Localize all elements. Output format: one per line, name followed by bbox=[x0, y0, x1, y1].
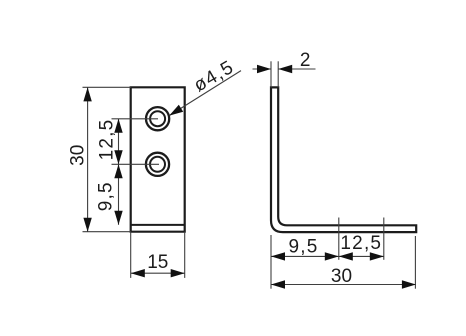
label 9,5 bbox=[95, 181, 116, 211]
label 30 bbox=[68, 145, 89, 166]
arrow 9,5 down bbox=[114, 211, 122, 225]
dim line 9,5 bbox=[118, 164, 120, 225]
arrow 30 left bbox=[271, 280, 285, 288]
bracket face outline bbox=[131, 87, 185, 231]
hole H2 outer bbox=[146, 153, 169, 176]
bend line bbox=[131, 224, 185, 226]
thin dimension / extension lines bbox=[83, 71, 242, 278]
arrow 15 left bbox=[131, 269, 145, 277]
arrow 12,5 up bbox=[114, 119, 122, 133]
label 12,5 bbox=[97, 119, 118, 161]
dim line 12,5 bbox=[118, 119, 120, 165]
arrow 30 up bbox=[83, 87, 91, 101]
svg-text:30: 30 bbox=[68, 145, 89, 166]
L profile outline bbox=[271, 87, 416, 232]
arrow 9,5 up bbox=[114, 164, 122, 178]
hole H1 outer bbox=[146, 107, 169, 130]
arrows right view bbox=[257, 65, 416, 289]
svg-text:9,5: 9,5 bbox=[95, 181, 116, 211]
svg-text:12,5: 12,5 bbox=[340, 233, 382, 254]
ext line 30 bottom bbox=[83, 231, 131, 233]
leader line dia 4,5 bbox=[169, 71, 241, 116]
ext line 30 right bbox=[414, 236, 416, 289]
svg-text:2: 2 bbox=[300, 50, 311, 71]
ext line 15 left bbox=[130, 232, 132, 278]
arrow 12,5 right bbox=[370, 252, 384, 260]
hole H1 inner bbox=[150, 111, 165, 126]
dim line 2 left segment bbox=[253, 68, 272, 70]
arrow 2 pointing left bbox=[278, 65, 292, 73]
hole H2 inner bbox=[150, 157, 165, 172]
center line hole H1 bbox=[112, 118, 159, 120]
ext line hole pos 1 bbox=[338, 218, 340, 260]
ext line 30 left bbox=[270, 235, 272, 289]
dim line 9,5 bbox=[271, 255, 339, 257]
dim line 12,5 bbox=[339, 255, 384, 257]
arrow 30 down bbox=[83, 218, 91, 232]
ext line 2 right bbox=[277, 61, 279, 87]
dim line 2 right segment bbox=[278, 68, 315, 70]
arrow 9,5 right bbox=[325, 252, 339, 260]
svg-text:9,5: 9,5 bbox=[288, 237, 318, 258]
ext line 30 top bbox=[83, 86, 131, 88]
svg-text:15: 15 bbox=[147, 252, 168, 273]
arrows left view bbox=[83, 87, 184, 277]
leader arrow dia 4,5 bbox=[169, 105, 183, 116]
ext line hole pos 2 bbox=[383, 218, 385, 260]
svg-text:30: 30 bbox=[331, 266, 352, 287]
svg-text:12,5: 12,5 bbox=[97, 119, 118, 161]
arrow 2 pointing right bbox=[257, 65, 271, 73]
dim line 30 bbox=[271, 284, 416, 286]
dim line 15 bbox=[131, 272, 185, 274]
arrow 12,5 down bbox=[114, 150, 122, 164]
arrow 9,5 left bbox=[271, 252, 285, 260]
label dia 4,5 bbox=[190, 57, 238, 97]
arrow 12,5 left bbox=[339, 252, 353, 260]
center line hole H2 bbox=[112, 163, 160, 165]
arrow 30 right bbox=[402, 280, 416, 288]
ext line 2 left bbox=[270, 61, 272, 87]
dim line 30 bbox=[87, 87, 89, 231]
ext line 15 right bbox=[184, 232, 186, 278]
arrow 15 right bbox=[171, 269, 185, 277]
